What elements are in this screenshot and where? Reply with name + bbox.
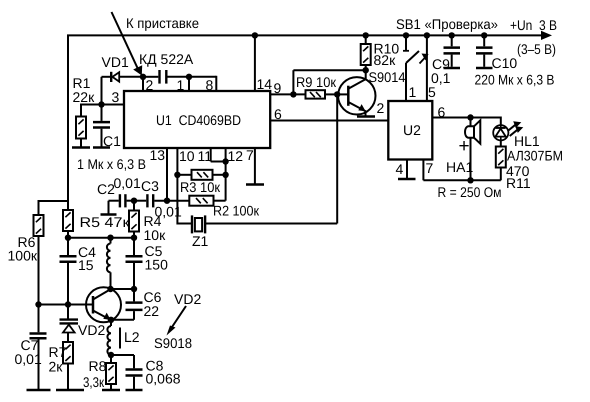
ground below pin4 bbox=[398, 178, 416, 181]
capacitor C9 bbox=[444, 35, 461, 66]
wire pin4 stub bbox=[406, 160, 408, 179]
svg-text:VD2: VD2 bbox=[78, 322, 105, 338]
ground bracket left of C2 bbox=[101, 201, 119, 215]
node R3/pin12 junction bbox=[222, 172, 228, 178]
transistor Q1 S9014 bbox=[338, 70, 375, 116]
node pin3/C1/VD1 junction bbox=[98, 101, 104, 107]
node pin5 junction on rail bbox=[424, 32, 430, 38]
ground below C7 bbox=[27, 389, 51, 392]
svg-text:R11: R11 bbox=[506, 175, 531, 191]
transistor Q2 S9018 bbox=[86, 287, 121, 322]
capacitor C1 bbox=[93, 105, 110, 148]
svg-text:22: 22 bbox=[144, 303, 160, 319]
svg-text:HA1: HA1 bbox=[446, 159, 473, 175]
ground below C8 bbox=[126, 389, 143, 392]
svg-text:L2: L2 bbox=[124, 329, 140, 345]
node R10/collector junction bbox=[363, 67, 369, 73]
wire pin12 column bbox=[225, 148, 227, 201]
wire VD1 branch bbox=[102, 77, 144, 105]
resistor R5 bbox=[63, 201, 73, 238]
switch SB1 bbox=[403, 35, 429, 101]
node base/Z1 junction bbox=[334, 91, 340, 97]
resistor R10 bbox=[361, 35, 371, 70]
diode VD2 varicap bbox=[60, 305, 79, 343]
node pin13/C3 junction bbox=[164, 198, 170, 204]
op-amp U1 CD4069BD box bbox=[124, 91, 270, 148]
svg-text:R3 10к: R3 10к bbox=[180, 179, 221, 195]
LED HL1 bbox=[493, 121, 523, 140]
ground below C10 bbox=[476, 67, 493, 70]
svg-text:VD2: VD2 bbox=[174, 291, 201, 307]
node SB1 left junction on rail bbox=[403, 32, 409, 38]
wire left border bbox=[67, 35, 69, 202]
svg-text:100к: 100к bbox=[8, 248, 38, 264]
wire base junction to base bar bbox=[337, 93, 348, 95]
capacitor C7 bbox=[30, 305, 47, 390]
svg-text:3: 3 bbox=[112, 89, 120, 105]
inductor L1 collector coil bbox=[107, 238, 111, 289]
node C5/C6 junction bbox=[131, 286, 137, 292]
svg-text:0,1: 0,1 bbox=[431, 70, 451, 86]
svg-text:14: 14 bbox=[257, 76, 273, 92]
svg-text:0,01: 0,01 bbox=[15, 351, 42, 367]
wire pin9 of U1 bbox=[270, 93, 305, 95]
node R6/C7 junction bbox=[35, 301, 41, 307]
node C10 junction on rail bbox=[481, 32, 487, 38]
op-amp U2 box bbox=[388, 101, 432, 160]
resistor R2 bbox=[189, 196, 225, 206]
svg-text:Z1: Z1 bbox=[192, 233, 209, 249]
inductor L2 bbox=[107, 320, 120, 355]
ground below C9 bbox=[444, 67, 461, 70]
svg-text:U1 CD4069BD: U1 CD4069BD bbox=[156, 112, 241, 128]
capacitor C4 bbox=[60, 238, 77, 305]
svg-text:SB1 «Проверка»: SB1 «Проверка» bbox=[396, 16, 498, 32]
svg-text:R2 100к: R2 100к bbox=[213, 203, 260, 219]
wire pin11 stub and jog bbox=[211, 148, 226, 162]
svg-text:VD1: VD1 bbox=[102, 54, 129, 70]
svg-text:S9018: S9018 bbox=[154, 335, 192, 351]
wire collector to C5/C6 bbox=[111, 288, 135, 290]
node emitter junction bbox=[108, 317, 114, 323]
svg-text:R9 10к: R9 10к bbox=[296, 74, 337, 90]
svg-text:82к: 82к bbox=[374, 52, 397, 68]
svg-text:12: 12 bbox=[228, 148, 244, 164]
wire pin7 stub and bottom wire bbox=[423, 160, 500, 181]
svg-text:К приставке: К приставке bbox=[126, 15, 199, 31]
ground below C1 bbox=[93, 146, 110, 149]
svg-text:6: 6 bbox=[438, 104, 446, 120]
svg-text:КД 522А: КД 522А bbox=[139, 51, 194, 67]
wire LED branch down bbox=[500, 117, 502, 126]
wire pin10 column down to Z1 row bbox=[177, 148, 191, 225]
svg-text:2к: 2к bbox=[49, 359, 64, 375]
wire to pin8 bbox=[189, 76, 216, 91]
ground below emitter S9014 bbox=[357, 115, 375, 118]
wire R6 top jog bbox=[39, 200, 69, 202]
wire pin14 column bbox=[254, 35, 256, 91]
capacitor C5 bbox=[126, 238, 143, 289]
node pin1 junction bbox=[186, 74, 192, 80]
svg-text:10к: 10к bbox=[144, 227, 167, 243]
ground below R7 bbox=[56, 389, 84, 392]
wire pin2 stub bbox=[142, 77, 144, 91]
resistor R6 bbox=[34, 200, 44, 305]
svg-text:S9014: S9014 bbox=[369, 69, 406, 85]
ground below R8 bbox=[102, 389, 120, 392]
resistor R3 bbox=[177, 170, 225, 180]
speaker HA1 bbox=[465, 118, 480, 181]
svg-text:+: + bbox=[459, 136, 470, 157]
resistor R9 bbox=[306, 90, 338, 98]
wire base row bbox=[39, 304, 94, 306]
svg-text:(3–5 В): (3–5 В) bbox=[517, 41, 556, 57]
svg-text:4: 4 bbox=[396, 161, 404, 177]
node pin2 junction bbox=[140, 74, 146, 80]
node feedback junction bbox=[290, 91, 296, 97]
resistor R7 bbox=[63, 342, 73, 390]
svg-text:U2: U2 bbox=[403, 122, 421, 138]
capacitor on top wire (series) bbox=[143, 70, 189, 84]
svg-text:1 Мк х 6,3 В: 1 Мк х 6,3 В bbox=[77, 156, 146, 172]
svg-text:C1: C1 bbox=[103, 133, 121, 149]
svg-text:15: 15 bbox=[78, 257, 94, 273]
svg-text:220 Мк х 6,3 В: 220 Мк х 6,3 В bbox=[475, 72, 555, 88]
wire +Un top supply rail bbox=[67, 31, 552, 40]
node pin14 junction on rail bbox=[252, 32, 258, 38]
svg-text:0,068: 0,068 bbox=[146, 371, 181, 387]
svg-text:22к: 22к bbox=[73, 89, 96, 105]
node collector junction bbox=[107, 286, 113, 292]
svg-text:C2: C2 bbox=[97, 181, 115, 197]
capacitor C3 bbox=[134, 194, 189, 207]
node R10 junction on rail bbox=[363, 32, 369, 38]
svg-text:R5 47к: R5 47к bbox=[80, 214, 131, 230]
svg-text:C10: C10 bbox=[492, 55, 518, 71]
ground below R1 bbox=[72, 146, 90, 149]
node C9 junction on rail bbox=[449, 32, 455, 38]
wire pin13 column bbox=[166, 148, 168, 201]
wire pin1 stub bbox=[188, 77, 190, 91]
node coil junction bbox=[107, 235, 113, 241]
node pin11/pin12 junction bbox=[222, 158, 228, 164]
wire feedback loop bbox=[293, 70, 365, 94]
resistor R11 bbox=[496, 140, 506, 180]
node pin10/R3 junction bbox=[174, 172, 180, 178]
resistor R1 bbox=[76, 104, 86, 148]
node C2/R4 junction bbox=[131, 198, 137, 204]
svg-text:13: 13 bbox=[150, 147, 166, 163]
resistor R8 bbox=[106, 355, 116, 390]
capacitor C6 bbox=[111, 289, 143, 320]
svg-text:R = 250 Ом: R = 250 Ом bbox=[438, 184, 502, 200]
diode VD1 bbox=[111, 72, 119, 82]
svg-text:0,01: 0,01 bbox=[114, 175, 141, 191]
wire pin3 row bbox=[81, 104, 124, 106]
node R4/C5 junction bbox=[131, 235, 137, 241]
wire pin6 of U2 bbox=[432, 117, 501, 119]
svg-text:7: 7 bbox=[246, 147, 254, 163]
capacitor C2 bbox=[120, 194, 134, 207]
svg-text:1: 1 bbox=[409, 84, 417, 100]
arrow К приставке bbox=[112, 12, 143, 76]
svg-text:7: 7 bbox=[426, 160, 434, 176]
node speaker bottom junction bbox=[467, 177, 473, 183]
node R5/C4 junction bbox=[65, 235, 71, 241]
quartz crystal Z1 bbox=[191, 215, 337, 233]
svg-text:АЛ307БМ: АЛ307БМ bbox=[507, 148, 563, 164]
wire pin6 of U1 to pin2 of U2 bbox=[270, 120, 388, 122]
svg-text:2: 2 bbox=[377, 100, 385, 116]
svg-text:150: 150 bbox=[145, 257, 169, 273]
node L2/R8/C8 junction bbox=[108, 352, 114, 358]
svg-text:C3: C3 bbox=[141, 178, 159, 194]
wire Z1 to S9014 base column bbox=[336, 94, 338, 223]
svg-text:10: 10 bbox=[179, 148, 195, 164]
node speaker top junction bbox=[467, 114, 473, 120]
resistor R4 bbox=[129, 201, 139, 238]
arrow VD2 to transistor bbox=[167, 306, 187, 336]
capacitor C10 bbox=[476, 35, 493, 66]
ground below pin7 bbox=[246, 183, 264, 186]
svg-text:3,3к: 3,3к bbox=[83, 374, 105, 390]
svg-text:+Un 3 В: +Un 3 В bbox=[510, 17, 557, 33]
capacitor C8 bbox=[111, 355, 143, 390]
wire row below R5/R4 bbox=[68, 237, 134, 239]
node C4/VD2 junction bbox=[65, 301, 71, 307]
svg-text:5: 5 bbox=[428, 84, 436, 100]
svg-text:R8: R8 bbox=[89, 358, 107, 374]
wire pin7 stub bbox=[254, 148, 256, 184]
